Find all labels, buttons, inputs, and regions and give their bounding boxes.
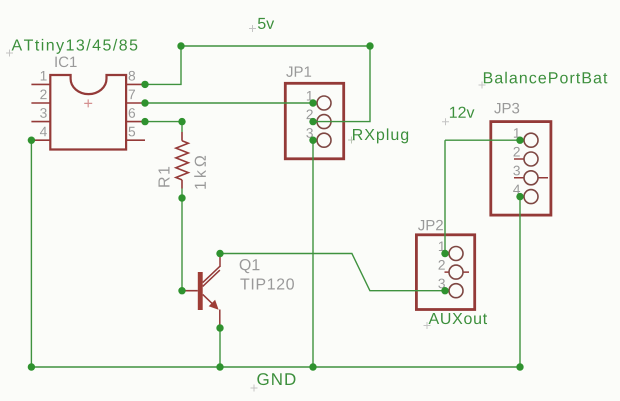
JP2 pin 3 stub [445,290,450,292]
IC1 pin number 7 [129,90,135,99]
net label GND [257,373,295,385]
junction dot GND bus left [28,363,35,370]
JP1 pin 3 circle [317,133,331,147]
IC1 value label origin cross [6,50,13,57]
JP2 value label AUXout origin cross [424,322,431,329]
transistor Q1 emitter arrow [209,300,219,310]
JP1 name label [286,66,311,76]
wire IC pin7 to JP1 pin1 [145,102,313,104]
transistor Q1 base bar [198,272,203,310]
JP3 value label BalancePortBat [484,72,607,84]
net label 12v [450,107,475,118]
JP2 pin 1 stub [445,253,450,255]
JP3 pin 2 stub (unconnected) [514,158,524,160]
JP3 pin number 3 [513,166,520,176]
wire 5v left vertical to IC pin8 [145,46,181,84]
IC1 pin number 3 [40,108,47,118]
JP1 value label RXplug [353,128,408,143]
wire R1 top stub [181,122,183,132]
JP3 pin number 1 [514,128,520,137]
junction dot GND bus JP1 pin3 [309,363,316,370]
junction dot JP3 pin1 [516,137,523,144]
IC1 pin 1 [31,83,50,85]
junction dot JP3 pin4 [516,193,523,200]
JP1 pin number 3 [306,128,313,138]
net label 12v origin cross [442,118,449,125]
wire 12v vertical to JP2 pin1 [444,140,446,253]
JP1 pin 1 circle [317,96,331,110]
junction dot Q1 collector [216,250,223,257]
transistor Q1 value label TIP120 [240,278,294,289]
JP1 value label RXplug origin cross [348,137,355,144]
JP1 pin 2 stub [313,121,318,123]
net label 5v [258,18,274,29]
JP1 pin 3 stub [313,139,318,141]
IC1 pin 4 [31,139,50,141]
IC1 pin number 6 [129,108,135,118]
transistor Q1 base pin [184,290,198,292]
wire GND bus [31,366,520,368]
resistor R1 pin stubs [181,132,183,189]
junction dot JP1 pin3 [309,137,316,144]
JP2 pin 2 stub (unconnected, through circle) [445,271,470,273]
JP3 pin number 2 [514,147,520,157]
wire 5v right vertical to JP1 pin2 [313,46,370,122]
junction dot JP2 pin1 [441,250,448,257]
JP2 pin 3 circle [449,284,463,298]
IC1 name label [55,57,76,68]
JP1 pin number 2 [307,109,313,119]
IC1 pin 7 [126,102,145,104]
wire JP3 pin4 to GND bus [519,197,521,367]
junction dot IC pin7 [141,99,148,106]
junction dot R1 top [178,118,185,125]
IC1 pin 2 [31,102,50,104]
JP3 pin 1 stub [520,139,525,141]
JP2 value label AUXout [429,313,487,324]
transistor Q1 collector darlington double diagonal [203,266,220,286]
wire 12v horizontal to JP3 pin1 [445,139,520,141]
resistor R1 name label (rotated) [158,167,169,187]
IC1 pin 6 [126,121,145,123]
junction dot R1 bottom [178,194,185,201]
connector JP1 box [285,83,343,159]
junction dot IC pin6 [141,118,148,125]
IC1 pin number 8 [129,71,135,81]
junction dot Q1 emitter [216,324,223,331]
junction dot JP1 pin2 [309,118,316,125]
JP1 pin number 1 [307,91,313,100]
junction dot IC pin8 [141,81,148,88]
JP3 value label BalancePortBat origin cross [479,82,486,89]
connector JP2 box [416,235,474,310]
IC1 pin 8 [126,83,145,85]
IC1 pin number 5 [129,127,136,137]
JP1 pin 2 circle [317,115,331,129]
transistor Q1 emitter stub [219,310,221,329]
junction dot Q1 base [178,287,185,294]
IC1 origin cross [84,99,92,107]
wire Q1 emitter to GND bus [219,328,221,367]
junction dot JP2 pin3 [441,287,448,294]
JP2 pin number 1 [439,242,445,251]
IC1 ATtiny13/45/85 body [50,75,126,150]
JP3 pin 1 circle [524,133,538,147]
JP2 name label [418,220,443,231]
wire Q1 collector net to JP2 pin3 [220,254,445,291]
net label GND origin cross [251,385,258,392]
JP3 pin 4 circle [524,190,538,204]
junction dot IC pin4 [28,137,35,144]
wire JP1 pin3 to GND bus [312,140,314,367]
IC1 value label ATtiny13/45/85 [12,39,138,54]
junction dot 5v rail left [177,42,184,49]
IC1 pin number 2 [40,89,46,99]
JP3 pin 3 circle [524,171,538,185]
JP2 pin number 3 [438,279,445,289]
transistor Q1 collector stub [219,254,221,268]
JP1 pin 1 stub [313,102,318,104]
wire 5v rail [181,45,370,47]
wire IC pin4 to GND bus [30,140,32,367]
JP3 pin 3 stub (unconnected, through circle) [514,177,548,179]
JP2 pin 1 circle [449,247,463,261]
JP3 pin 2 circle [524,152,538,166]
wire R1 bottom to Q1 base [181,189,183,291]
transistor Q1 emitter diagonal [203,294,214,305]
connector JP3 box [491,122,551,216]
IC1 pin 3 [31,121,50,123]
resistor R1 zigzag [176,141,188,180]
junction dot GND bus Q1 emitter [216,363,223,370]
resistor R1 value label 1kOhm (rotated) [194,156,206,189]
junction dot GND bus right JP3 pin4 [516,363,523,370]
JP2 pin 2 circle [449,265,463,279]
transistor Q1 name label [240,259,260,273]
net label 5v origin cross [249,25,256,32]
JP3 pin number 4 [513,185,520,194]
IC1 pin 5 [126,139,145,141]
IC1 pin number 4 [40,127,47,136]
JP3 name label [494,103,519,114]
junction dot JP1 pin1 [309,99,316,106]
wire IC pin6 to R1 top [145,121,182,123]
IC1 pin number 1 [41,71,47,80]
JP3 pin 4 stub [520,196,525,198]
junction dot 5v rail right [366,42,373,49]
JP2 pin number 2 [439,260,445,270]
